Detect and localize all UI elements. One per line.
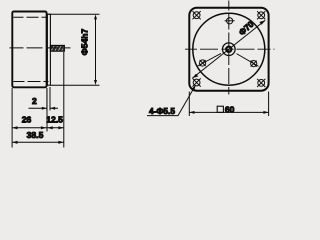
shaft inner ring	[226, 47, 231, 52]
dim phi54h7 bottom extension line	[50, 84, 100, 86]
shaft hatch streaks	[52, 46, 64, 50]
leader arrowhead	[192, 85, 196, 91]
corner hole top-right	[257, 11, 265, 19]
dim phi70 diagonal line	[192, 20, 265, 78]
radial line lower-left screw	[198, 53, 222, 66]
dim 38.5 line	[12, 141, 64, 143]
dim square60 arrowheads	[190, 111, 269, 114]
svg-text:2: 2	[32, 96, 37, 106]
assembly screw lower-left	[200, 60, 206, 66]
spigot boss 2mm	[47, 14, 50, 85]
dim 2 arrow lines	[29, 107, 59, 109]
dim phi54h7 top extension line	[48, 13, 100, 15]
svg-text:38.5: 38.5	[27, 130, 44, 140]
dim square60 right extension line	[268, 92, 270, 117]
svg-text:Φ54h7: Φ54h7	[80, 28, 90, 55]
svg-text:4-Φ5.5: 4-Φ5.5	[149, 106, 175, 116]
dim 26/12.5 arrowheads	[12, 126, 63, 129]
spigot circle	[193, 13, 265, 85]
label square60 box glyph	[217, 106, 223, 112]
dim square60 line	[189, 111, 268, 113]
dim 26/12.5 line	[12, 127, 64, 129]
shaft outer circle	[223, 43, 236, 56]
horizontal centerline	[185, 48, 275, 50]
corner hole bottom-right	[257, 79, 265, 87]
assembly screw top	[225, 18, 235, 24]
svg-text:60: 60	[225, 104, 235, 114]
corner hole top-left	[193, 11, 201, 19]
assembly screw lower-right	[251, 61, 257, 67]
body bottom silhouette line	[14, 81, 49, 83]
svg-text:26: 26	[22, 115, 32, 125]
vertical centerline	[228, 1, 230, 95]
dim 38.5 arrowheads	[12, 141, 63, 144]
motor body (side view)	[12, 12, 46, 88]
dim 26/12.5 left extension line	[12, 88, 47, 148]
dim square60 left extension line	[188, 92, 190, 117]
dim phi70 arrowheads	[192, 20, 265, 78]
shaft centerline	[10, 47, 71, 49]
body top silhouette line	[14, 16, 48, 18]
dim 2 arrowheads	[42, 107, 55, 110]
dim 2 extension lines	[47, 87, 50, 111]
dim 26/12.5 right extension line	[63, 52, 65, 148]
leader 4-phi5.5	[147, 87, 195, 116]
flange square (front view)	[189, 8, 268, 91]
dim phi54h7 line	[95, 16, 97, 83]
svg-text:12.5: 12.5	[46, 115, 63, 125]
radial line lower-right screw	[237, 54, 259, 67]
output shaft (hatched)	[50, 45, 64, 51]
corner hole bottom-left	[193, 78, 201, 86]
dim phi54h7 arrows	[94, 14, 97, 85]
